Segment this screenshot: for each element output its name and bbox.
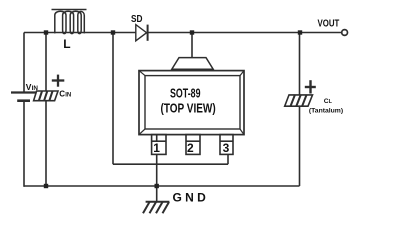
svg-text:SD: SD [131, 14, 143, 25]
pin 2 [186, 135, 200, 155]
SOT-89 tab [172, 58, 213, 70]
node junction GND [155, 184, 159, 188]
pin 3 [220, 135, 233, 155]
SOT-89 outer body [139, 71, 244, 135]
battery VIN long plate [11, 91, 37, 93]
node VOUT terminal [342, 30, 348, 36]
SOT-89 corner bevels [139, 71, 244, 135]
node junction L-SD [111, 30, 115, 34]
wire CL upper [299, 33, 301, 95]
diode SD triangle [136, 25, 147, 41]
wire left vertical upper [23, 33, 25, 93]
wire SW vertical [112, 33, 114, 165]
svg-text:G N D: G N D [173, 190, 207, 204]
wire pin1 to ground [156, 154, 158, 201]
wire pin3 drop [227, 154, 229, 164]
battery VIN short plate [17, 99, 30, 102]
wire SW horizontal to pin3 [113, 163, 228, 165]
svg-text:2: 2 [187, 141, 194, 155]
wire pin1 stub [156, 135, 158, 142]
wire top right [148, 32, 342, 34]
wire left vertical lower [23, 101, 25, 187]
wire tab drop [191, 33, 193, 58]
wire CL lower [299, 106, 301, 186]
node junction VOUT [298, 30, 302, 34]
inductor L coil [55, 11, 85, 33]
capacitor CL plus sign [305, 80, 316, 93]
wire CIN lower [45, 101, 47, 186]
capacitor CIN plus sign [52, 75, 65, 87]
capacitor CIN body [34, 91, 58, 101]
svg-text:1: 1 [153, 141, 160, 155]
pin 1 [152, 135, 166, 155]
svg-text:L: L [63, 37, 70, 51]
svg-text:(TOP VIEW): (TOP VIEW) [161, 102, 216, 116]
wire bottom [24, 185, 300, 187]
node junction CIN-bottom [44, 184, 48, 188]
svg-text:3: 3 [223, 141, 230, 155]
inductor L core bar [52, 9, 87, 11]
node junction L-left [44, 30, 48, 34]
svg-text:IN: IN [65, 92, 71, 98]
svg-text:VOUT: VOUT [318, 18, 340, 30]
diode SD cathode bar [147, 25, 149, 41]
wire top left [24, 32, 136, 34]
wire CIN upper [45, 33, 47, 92]
svg-text:SOT-89: SOT-89 [170, 87, 201, 101]
capacitor CL body [285, 95, 313, 106]
svg-text:(Tantalum): (Tantalum) [309, 108, 343, 115]
ground [143, 202, 169, 214]
node junction tab [190, 30, 194, 34]
SOT-89 inner body [145, 76, 240, 129]
